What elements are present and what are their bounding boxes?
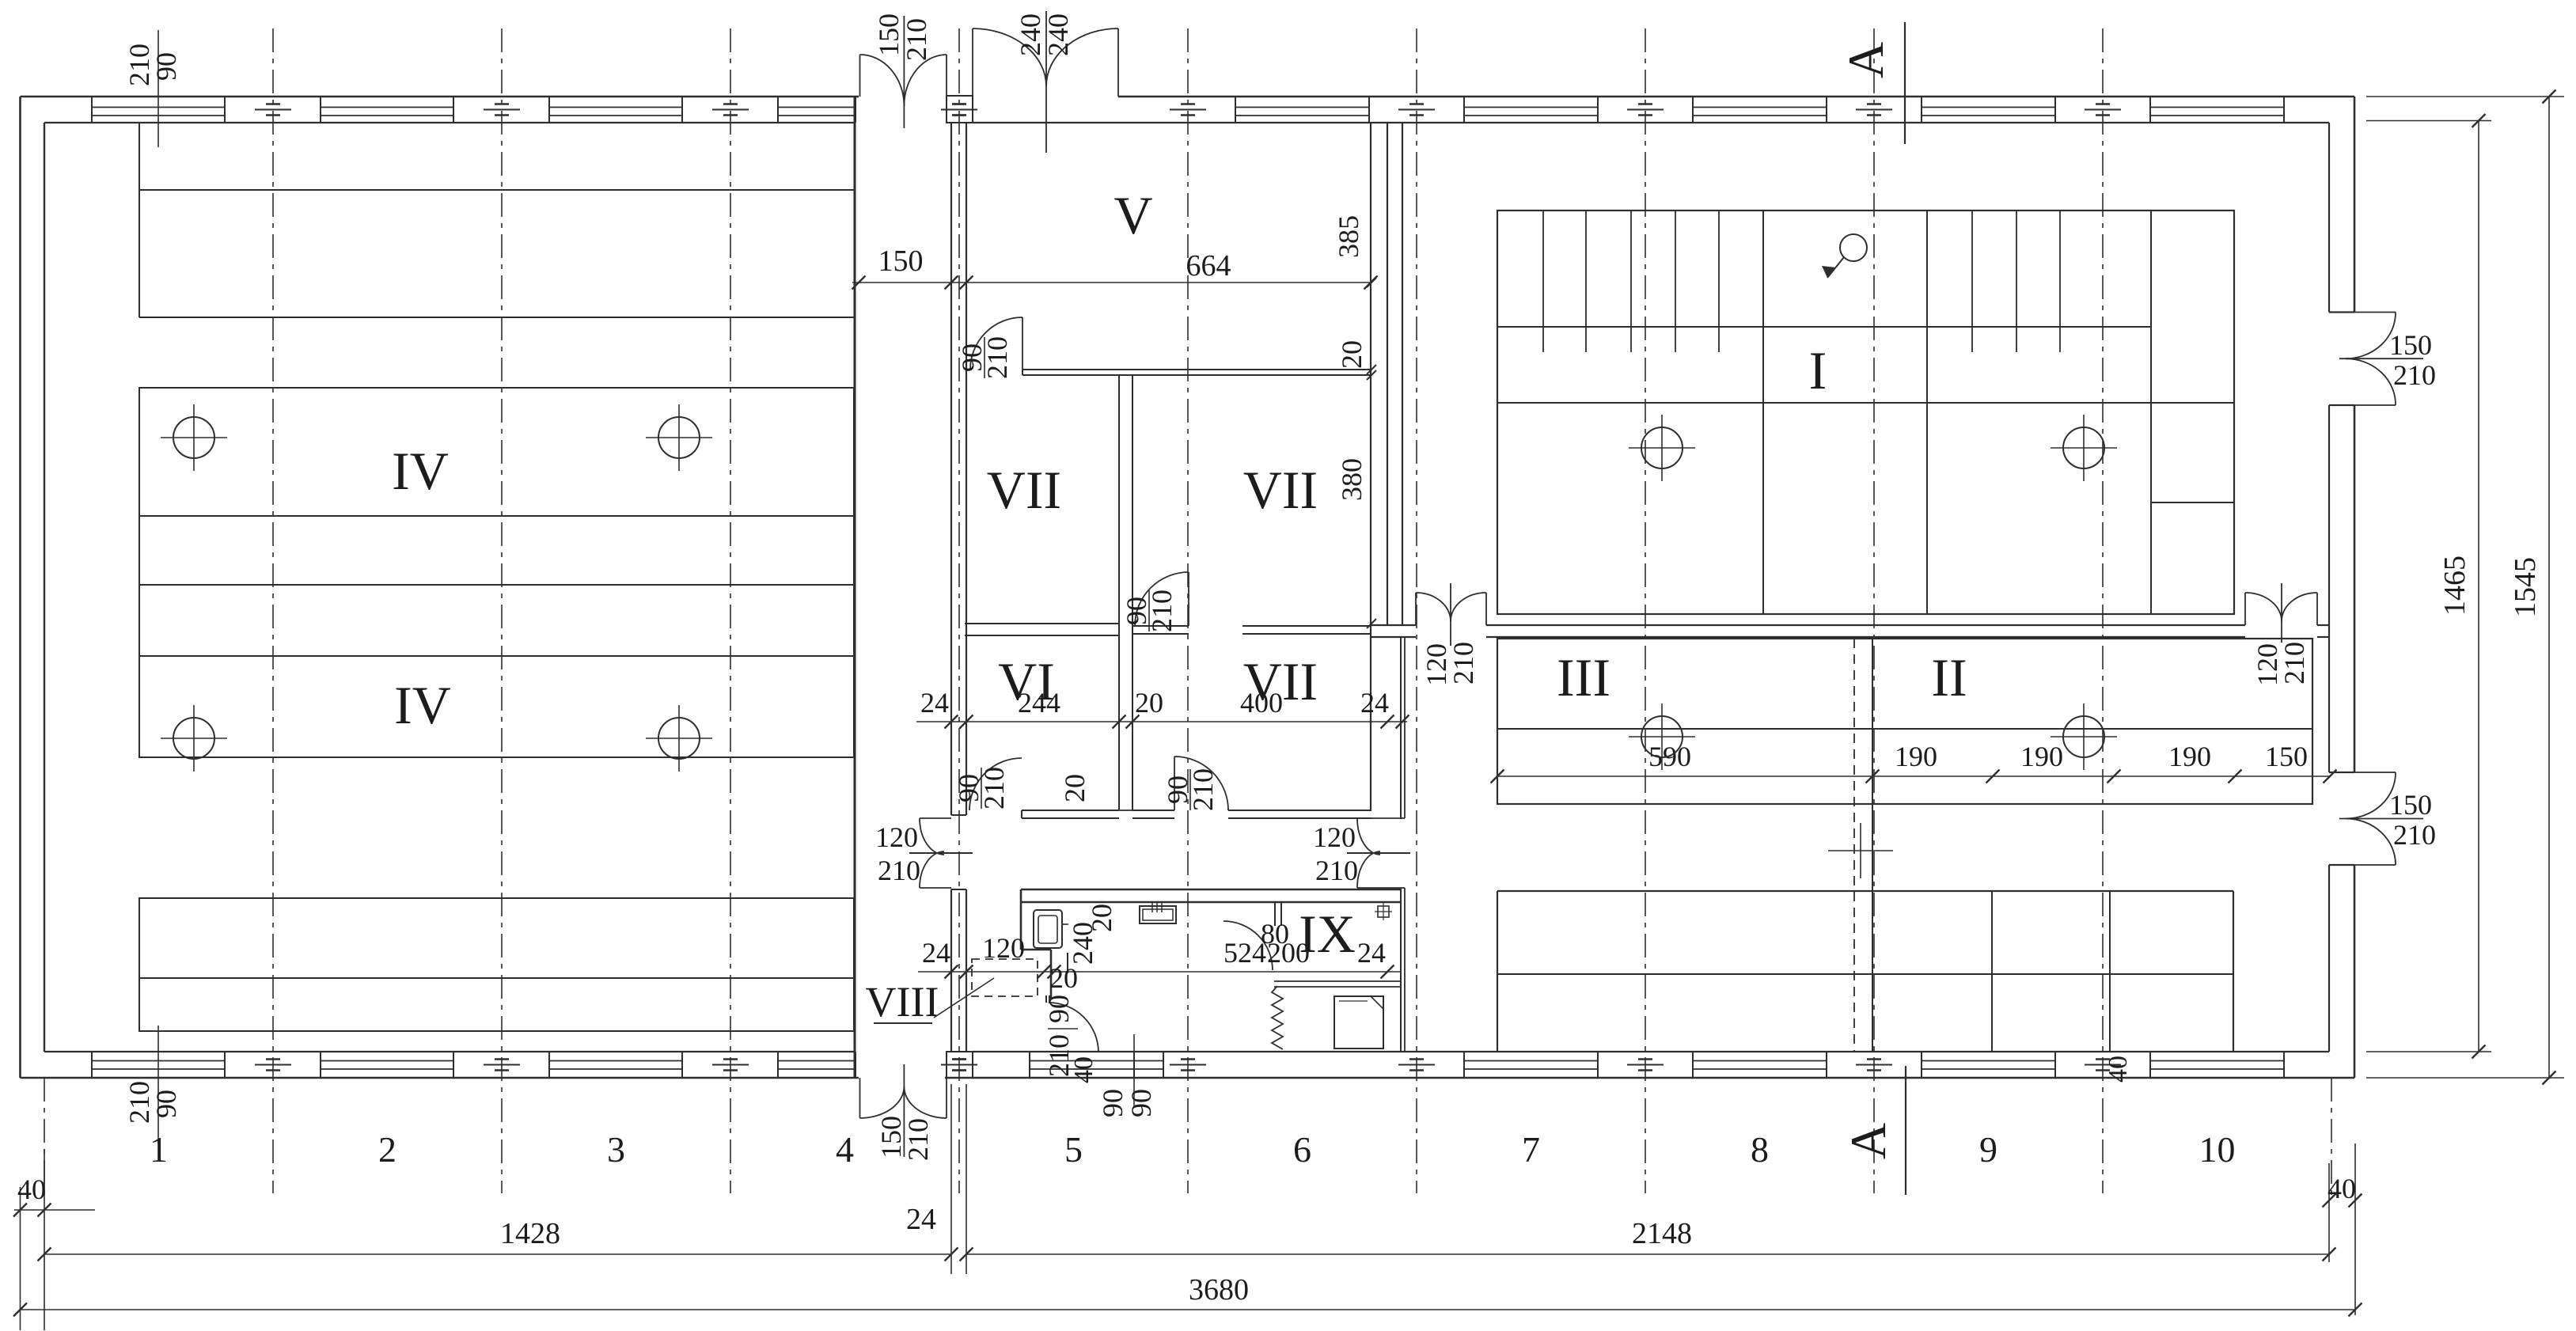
svg-text:90: 90: [1125, 1089, 1157, 1117]
svg-text:24: 24: [922, 937, 950, 969]
svg-text:IV: IV: [392, 441, 449, 501]
svg-text:7: 7: [1522, 1129, 1540, 1170]
svg-text:20: 20: [1059, 774, 1091, 802]
svg-text:150: 150: [878, 245, 924, 278]
svg-text:90: 90: [1043, 995, 1075, 1023]
svg-text:240: 240: [1067, 922, 1098, 965]
svg-text:664: 664: [1186, 249, 1231, 283]
svg-text:40: 40: [2104, 1056, 2133, 1083]
svg-text:2: 2: [378, 1129, 396, 1170]
svg-text:210: 210: [2278, 642, 2310, 684]
svg-text:3: 3: [607, 1129, 625, 1170]
svg-text:24: 24: [1360, 687, 1389, 719]
svg-text:10: 10: [2199, 1129, 2236, 1170]
svg-text:210: 210: [981, 336, 1013, 379]
svg-text:150: 150: [2389, 789, 2432, 821]
svg-text:210: 210: [1315, 855, 1358, 886]
svg-text:V: V: [1113, 185, 1152, 245]
svg-text:20: 20: [1135, 687, 1163, 719]
svg-text:190: 190: [1895, 741, 1937, 772]
svg-text:244: 244: [1018, 687, 1060, 719]
svg-text:IX: IX: [1299, 904, 1356, 964]
svg-text:9: 9: [1979, 1129, 1997, 1170]
svg-text:2148: 2148: [1632, 1217, 1692, 1250]
svg-text:4: 4: [836, 1129, 854, 1170]
svg-text:120: 120: [875, 821, 918, 853]
svg-text:90: 90: [1097, 1089, 1129, 1117]
svg-text:40: 40: [1069, 1056, 1098, 1083]
svg-text:380: 380: [1336, 458, 1368, 501]
svg-text:190: 190: [2020, 741, 2063, 772]
svg-text:40: 40: [17, 1174, 46, 1205]
svg-text:8: 8: [1751, 1129, 1769, 1170]
svg-text:1545: 1545: [2509, 557, 2542, 617]
svg-text:VII: VII: [1243, 460, 1318, 520]
svg-text:210: 210: [2393, 359, 2436, 391]
svg-text:524: 524: [1224, 937, 1266, 969]
svg-text:A: A: [1840, 1123, 1896, 1159]
svg-text:IV: IV: [394, 675, 451, 735]
svg-text:20: 20: [1049, 962, 1078, 994]
svg-text:210: 210: [1146, 590, 1178, 632]
svg-text:I: I: [1809, 340, 1827, 400]
svg-text:385: 385: [1333, 215, 1364, 258]
svg-text:24: 24: [920, 687, 949, 719]
svg-text:150: 150: [2265, 741, 2308, 772]
svg-text:210: 210: [901, 18, 932, 61]
svg-text:A: A: [1838, 42, 1894, 78]
svg-text:6: 6: [1293, 1129, 1311, 1170]
svg-text:210: 210: [2393, 819, 2436, 851]
svg-text:210: 210: [978, 767, 1010, 810]
svg-text:120: 120: [1313, 821, 1356, 853]
svg-text:90: 90: [150, 1090, 182, 1118]
svg-text:24: 24: [1357, 937, 1386, 969]
svg-text:1428: 1428: [500, 1217, 560, 1250]
svg-text:210: 210: [878, 855, 920, 886]
svg-text:90: 90: [150, 52, 182, 81]
svg-text:II: II: [1931, 647, 1967, 707]
svg-text:VIII: VIII: [866, 978, 939, 1026]
svg-text:1: 1: [150, 1129, 168, 1170]
svg-text:240: 240: [1015, 13, 1046, 56]
svg-text:150: 150: [2389, 329, 2432, 361]
svg-text:1465: 1465: [2438, 556, 2472, 616]
svg-text:210: 210: [1187, 768, 1219, 811]
svg-text:3680: 3680: [1189, 1273, 1249, 1306]
svg-text:240: 240: [1042, 13, 1074, 56]
svg-text:40: 40: [2328, 1173, 2356, 1204]
svg-text:III: III: [1557, 647, 1610, 707]
svg-text:150: 150: [873, 13, 905, 56]
svg-text:400: 400: [1240, 687, 1283, 719]
svg-text:5: 5: [1064, 1129, 1083, 1170]
svg-text:210: 210: [1447, 642, 1479, 684]
svg-text:VII: VII: [987, 460, 1061, 520]
svg-text:190: 190: [2168, 741, 2211, 772]
svg-text:24: 24: [906, 1203, 936, 1236]
svg-text:20: 20: [1336, 340, 1368, 369]
svg-text:210: 210: [902, 1118, 934, 1161]
